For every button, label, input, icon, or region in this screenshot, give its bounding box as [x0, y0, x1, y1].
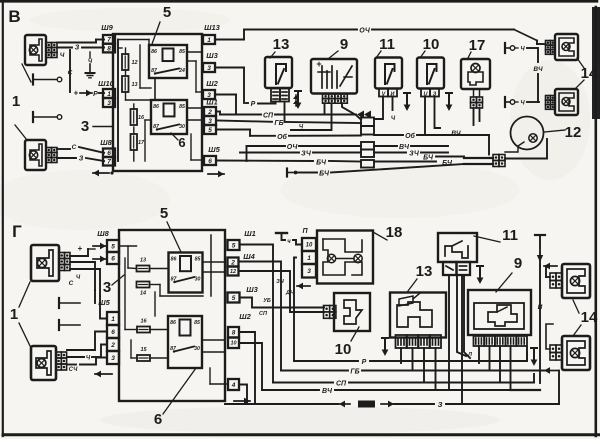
svg-text:6: 6 [111, 329, 115, 336]
svg-text:Р: Р [251, 101, 256, 108]
svg-text:Л: Л [467, 352, 472, 358]
svg-text:86: 86 [153, 104, 159, 110]
svg-text:4: 4 [231, 382, 236, 389]
svg-text:Ш8: Ш8 [100, 138, 112, 147]
svg-text:С: С [68, 70, 73, 77]
svg-text:Ш1: Ш1 [244, 229, 256, 238]
svg-text:Об: Об [405, 132, 415, 140]
svg-text:УБ: УБ [263, 298, 271, 304]
svg-text:Ч: Ч [60, 52, 65, 59]
svg-text:5: 5 [163, 4, 171, 21]
svg-text:5: 5 [111, 243, 115, 250]
svg-text:Ш2: Ш2 [206, 79, 218, 88]
svg-text:3: 3 [103, 279, 111, 296]
svg-text:2: 2 [207, 109, 212, 116]
svg-text:12: 12 [131, 60, 137, 66]
svg-text:15: 15 [140, 347, 147, 353]
svg-text:5: 5 [208, 127, 212, 134]
svg-text:СП: СП [336, 381, 347, 388]
svg-text:86: 86 [151, 49, 157, 55]
svg-text:14: 14 [140, 291, 146, 297]
svg-text:2: 2 [110, 342, 115, 349]
svg-text:ГБ: ГБ [274, 120, 283, 127]
svg-text:10: 10 [230, 341, 236, 347]
svg-text:З: З [438, 400, 443, 409]
svg-text:Об: Об [277, 133, 287, 141]
svg-text:+: + [74, 89, 79, 98]
svg-text:Ш9: Ш9 [101, 23, 113, 32]
svg-text:3: 3 [207, 65, 211, 72]
svg-text:9: 9 [340, 36, 348, 53]
svg-text:СЧ: СЧ [69, 367, 78, 373]
svg-text:Г: Г [12, 222, 22, 241]
svg-text:З: З [75, 45, 80, 52]
svg-text:Р: Р [362, 359, 367, 366]
svg-text:Ш3: Ш3 [246, 285, 258, 294]
svg-text:ГБ: ГБ [350, 369, 359, 376]
svg-text:8: 8 [232, 330, 236, 337]
svg-text:85: 85 [179, 104, 185, 110]
svg-text:Ш1: Ш1 [206, 98, 218, 107]
svg-text:БЧ: БЧ [423, 155, 434, 162]
svg-text:8: 8 [107, 45, 111, 52]
svg-text:С: С [72, 144, 77, 151]
svg-text:10: 10 [335, 341, 352, 358]
svg-text:Ш8: Ш8 [97, 229, 109, 238]
svg-text:12: 12 [230, 269, 236, 275]
svg-text:11: 11 [379, 36, 395, 53]
svg-text:+: + [316, 59, 321, 69]
svg-text:13: 13 [131, 82, 137, 88]
svg-text:БЧ: БЧ [316, 160, 327, 167]
svg-text:6: 6 [111, 255, 115, 262]
svg-text:1: 1 [207, 37, 211, 44]
svg-text:3: 3 [81, 118, 89, 135]
svg-text:3: 3 [111, 355, 115, 362]
svg-text:СП: СП [259, 311, 268, 317]
svg-text:6: 6 [178, 135, 185, 150]
svg-text:11: 11 [502, 227, 518, 244]
svg-text:85: 85 [195, 257, 201, 263]
svg-text:ДЧ: ДЧ [285, 290, 294, 296]
svg-text:ВЧ: ВЧ [533, 66, 543, 73]
svg-text:+: + [78, 244, 83, 253]
svg-text:2: 2 [230, 259, 235, 266]
svg-text:ОЧ: ОЧ [287, 144, 299, 151]
svg-text:7: 7 [107, 159, 111, 166]
svg-text:3: 3 [107, 100, 111, 107]
svg-text:16: 16 [140, 319, 147, 325]
svg-text:З: З [79, 156, 84, 163]
svg-text:1: 1 [307, 255, 311, 262]
svg-text:16: 16 [138, 115, 145, 121]
svg-text:СП: СП [263, 113, 274, 120]
svg-text:1: 1 [107, 91, 111, 98]
svg-text:86: 86 [171, 257, 177, 263]
svg-text:14: 14 [581, 309, 598, 326]
svg-text:3: 3 [307, 268, 311, 275]
svg-text:1: 1 [111, 316, 115, 323]
svg-text:13: 13 [273, 36, 290, 53]
svg-text:85: 85 [194, 320, 200, 326]
svg-text:6: 6 [208, 158, 212, 165]
svg-text:ВЧ: ВЧ [451, 130, 461, 137]
svg-text:Ш13: Ш13 [204, 23, 221, 32]
svg-text:БЧ: БЧ [319, 171, 330, 178]
svg-text:85: 85 [179, 49, 185, 55]
svg-text:86: 86 [170, 320, 176, 326]
svg-text:С: С [69, 280, 74, 287]
svg-text:5: 5 [232, 295, 236, 302]
svg-text:И: И [538, 304, 543, 311]
svg-text:13: 13 [140, 258, 146, 264]
svg-text:В: В [8, 7, 20, 26]
svg-text:9: 9 [514, 255, 522, 272]
svg-text:ВЧ: ВЧ [322, 388, 333, 395]
svg-text:13: 13 [416, 263, 433, 280]
svg-text:ЗЧ: ЗЧ [301, 151, 312, 158]
svg-text:1: 1 [10, 306, 18, 323]
svg-text:3: 3 [208, 118, 212, 125]
svg-text:ЗЧ: ЗЧ [276, 279, 284, 285]
svg-text:10: 10 [306, 243, 313, 249]
svg-text:Ш3: Ш3 [206, 51, 218, 60]
svg-text:5: 5 [232, 242, 236, 249]
svg-text:5: 5 [160, 205, 168, 222]
svg-text:18: 18 [386, 224, 403, 241]
svg-text:ОЧ: ОЧ [359, 28, 371, 35]
svg-text:ЗЧ: ЗЧ [409, 151, 420, 158]
svg-text:Р: Р [93, 91, 98, 98]
svg-text:БЧ: БЧ [442, 160, 453, 167]
svg-text:ч: ч [287, 239, 291, 245]
svg-text:Ш2: Ш2 [239, 312, 251, 321]
svg-text:6: 6 [154, 411, 162, 428]
svg-text:12: 12 [565, 124, 582, 141]
svg-text:17: 17 [138, 140, 145, 146]
svg-text:Ш4: Ш4 [243, 252, 255, 261]
svg-text:Ш5: Ш5 [208, 145, 220, 154]
svg-text:1: 1 [12, 93, 20, 110]
